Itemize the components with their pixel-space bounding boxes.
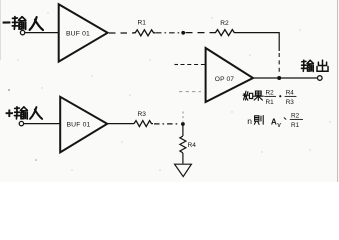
wire dashed feedback down <box>278 53 280 75</box>
resistor R4 (vertical) <box>180 136 196 153</box>
svg-text:n: n <box>247 116 252 126</box>
scan speck 2 <box>35 159 37 161</box>
label -输入 (minus input) <box>3 17 43 30</box>
formula line 2: n 则 Av = R2/R1 <box>247 112 303 129</box>
wire -input to buffer <box>25 32 58 34</box>
buffer U1 BUF 01 (top) <box>59 4 108 61</box>
terminal circle output <box>318 76 323 81</box>
wire node B down to R4 <box>182 124 184 136</box>
wire +input to buffer <box>24 123 60 125</box>
svg-text:R3: R3 <box>286 99 295 106</box>
svg-text:R2: R2 <box>220 20 229 27</box>
wire R2 to feedback corner <box>237 33 280 51</box>
wire dashed node A to R2 <box>186 32 214 34</box>
op-amp U3 OP 07 <box>206 48 253 102</box>
wire dashed buffer U1 out <box>109 32 133 34</box>
svg-text:R4: R4 <box>188 142 197 149</box>
terminal circle +input <box>19 121 23 125</box>
wire stub op-amp inverting input <box>175 64 179 66</box>
label 输出 (output) <box>302 60 329 71</box>
terminal circle -input <box>20 30 24 34</box>
svg-text:R2: R2 <box>266 90 275 97</box>
wire buffer U2 out <box>107 123 134 125</box>
svg-text:R1: R1 <box>266 99 275 106</box>
wire dash-dot R1 to node A <box>156 32 181 34</box>
wire faint dashed node B up <box>182 112 184 122</box>
wire dash-dot R3 to node B <box>154 123 180 125</box>
scan edge artifact right <box>337 0 339 182</box>
svg-text:R2: R2 <box>291 112 300 119</box>
node A junction <box>181 31 185 35</box>
svg-text:R1: R1 <box>291 122 300 129</box>
scan edge artifact left <box>0 0 1 60</box>
wire dashed to inverting input <box>181 64 206 66</box>
svg-text:R4: R4 <box>286 90 295 97</box>
wire op-amp output <box>253 77 317 79</box>
svg-text:V: V <box>277 123 281 129</box>
svg-text:OP 07: OP 07 <box>215 76 235 83</box>
label +输入 (plus input) <box>6 107 43 119</box>
svg-text:R1: R1 <box>138 20 147 27</box>
wire faint dashed to non-inverting input <box>179 91 201 93</box>
scan noise <box>17 12 330 170</box>
resistor R1 <box>133 20 156 36</box>
buffer U2 BUF 01 (bottom) <box>60 97 107 153</box>
formula line 1: 如果 R2/R1 . R4/R3 <box>243 90 296 106</box>
wire R4 to ground <box>182 153 184 164</box>
svg-text:BUF 01: BUF 01 <box>66 31 90 38</box>
resistor R3 <box>134 111 153 127</box>
node output junction <box>277 76 281 80</box>
ground <box>175 164 192 176</box>
svg-text:A: A <box>271 118 277 127</box>
svg-text:BUF 01: BUF 01 <box>67 121 91 128</box>
resistor R2 <box>213 20 236 36</box>
node B junction <box>181 122 185 126</box>
svg-text:R3: R3 <box>138 111 147 118</box>
scan speck <box>8 89 10 91</box>
